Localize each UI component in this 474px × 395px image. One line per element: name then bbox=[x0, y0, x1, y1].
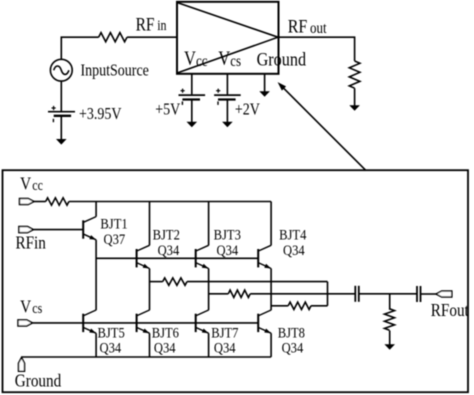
wire collector drop col4 bbox=[270, 202, 272, 246]
wire collector drop col3 bbox=[208, 202, 210, 246]
transistor BJT3 bbox=[196, 245, 209, 268]
svg-text:InputSource: InputSource bbox=[81, 61, 150, 79]
wire RFin to BJT1 base bbox=[33, 229, 83, 231]
ground +5V bbox=[187, 122, 198, 128]
wire BJT3 emitter down bbox=[208, 269, 210, 311]
wire battery to ground bbox=[60, 116, 62, 140]
wire port to resistor bbox=[34, 201, 46, 203]
wire line C to bus bbox=[311, 305, 328, 307]
wire base bus top row bbox=[96, 257, 258, 259]
svg-text:BJT2: BJT2 bbox=[153, 228, 180, 244]
ground +2V bbox=[222, 122, 233, 128]
svg-text:RF: RF bbox=[288, 15, 308, 37]
port Vcc bbox=[20, 198, 35, 204]
wire shunt resistor to ground bbox=[389, 331, 391, 345]
wire +2V cap to ground bbox=[226, 100, 228, 123]
svg-text:BJT8: BJT8 bbox=[278, 325, 305, 341]
wire line C bbox=[271, 305, 288, 307]
label Vcc amp pin bbox=[184, 47, 208, 70]
resistor line A bbox=[163, 278, 187, 285]
wire amp RFout bbox=[279, 37, 355, 61]
svg-text:cs: cs bbox=[230, 53, 241, 70]
svg-text:Q34: Q34 bbox=[158, 243, 180, 259]
label RFout top bbox=[288, 15, 327, 37]
svg-text:Q34: Q34 bbox=[154, 341, 176, 357]
wire BJT5 emitter to ground bus bbox=[95, 333, 97, 357]
resistor Vcc bias bbox=[46, 198, 69, 205]
voltage source InputSource bbox=[50, 59, 72, 81]
svg-text:V: V bbox=[184, 47, 196, 69]
svg-text:BJT4: BJT4 bbox=[279, 228, 306, 244]
wire BJT1 emitter down bbox=[95, 240, 97, 310]
svg-text:RF: RF bbox=[136, 14, 155, 35]
resistor load RFout bbox=[349, 61, 360, 88]
svg-text:BJT1: BJT1 bbox=[100, 217, 127, 233]
svg-text:+2V: +2V bbox=[235, 100, 260, 118]
wire line B to cap bbox=[250, 293, 355, 295]
transistor BJT7 bbox=[196, 310, 209, 333]
annotation arrow to ground pin bbox=[278, 82, 366, 171]
svg-text:BJT5: BJT5 bbox=[98, 325, 125, 341]
label Vcs amp pin bbox=[218, 47, 241, 70]
svg-text:BJT6: BJT6 bbox=[152, 325, 179, 341]
transistor BJT5 bbox=[83, 310, 96, 333]
wire BJT2 emitter down bbox=[149, 269, 151, 311]
svg-text:BJT7: BJT7 bbox=[211, 325, 238, 341]
svg-text:cc: cc bbox=[196, 53, 208, 70]
ground amp pin bbox=[259, 91, 270, 97]
capacitor +5V bbox=[179, 89, 206, 105]
transistor BJT1 bbox=[83, 217, 96, 240]
svg-text:Q34: Q34 bbox=[214, 341, 236, 357]
wire cap1 to cap2 bbox=[359, 293, 417, 295]
transistor BJT8 bbox=[258, 310, 271, 333]
wire shunt drop bbox=[389, 294, 391, 310]
resistor shunt output bbox=[385, 309, 395, 330]
ground load bbox=[349, 105, 360, 111]
label Vcs bbox=[20, 296, 42, 317]
wire ground bus bbox=[22, 356, 272, 358]
wire combine bus vertical bbox=[327, 282, 329, 306]
svg-text:+3.95V: +3.95V bbox=[79, 105, 121, 123]
svg-text:BJT3: BJT3 bbox=[214, 228, 241, 244]
battery +3.95V bbox=[48, 81, 75, 122]
wire line A bbox=[150, 281, 163, 283]
resistor line B bbox=[228, 290, 250, 297]
pin Vcc stub bbox=[191, 74, 193, 95]
svg-text:cs: cs bbox=[32, 300, 42, 316]
port RFin bbox=[19, 227, 34, 233]
svg-text:V: V bbox=[218, 47, 230, 69]
svg-text:V: V bbox=[20, 296, 31, 317]
wire line A to bus bbox=[187, 281, 328, 283]
pin Ground stub bbox=[264, 74, 266, 92]
svg-text:RFin: RFin bbox=[16, 232, 47, 253]
svg-text:cc: cc bbox=[32, 177, 43, 193]
svg-text:+5V: +5V bbox=[155, 100, 180, 118]
wire line B bbox=[209, 293, 229, 295]
svg-text:Q34: Q34 bbox=[100, 341, 122, 357]
wire collector drop col2 bbox=[149, 202, 151, 246]
transistor BJT2 bbox=[137, 245, 150, 268]
wire source top to RFin resistor bbox=[61, 37, 98, 59]
ground source bbox=[56, 139, 67, 145]
wire Vcs bus bbox=[33, 322, 259, 324]
svg-text:Q37: Q37 bbox=[104, 232, 126, 248]
resistor source series bbox=[99, 33, 127, 42]
svg-text:V: V bbox=[20, 173, 31, 194]
wire BJT6 emitter to ground bus bbox=[149, 333, 151, 357]
label RFin top bbox=[136, 14, 167, 35]
port Vcs bbox=[18, 320, 33, 326]
svg-text:Ground: Ground bbox=[15, 370, 62, 391]
wire Vcc bus bbox=[69, 201, 271, 203]
svg-text:Q34: Q34 bbox=[282, 341, 304, 357]
label Vcc bbox=[20, 173, 43, 194]
svg-text:Q34: Q34 bbox=[283, 243, 305, 259]
wire BJT7 emitter to ground bus bbox=[208, 333, 210, 357]
capacitor C1 output bbox=[355, 286, 359, 302]
svg-text:Q34: Q34 bbox=[217, 243, 239, 259]
svg-text:out: out bbox=[310, 20, 327, 37]
capacitor C2 output bbox=[417, 286, 421, 302]
wire BJT4 emitter down bbox=[270, 269, 272, 311]
wire cap2 to port bbox=[421, 293, 437, 295]
transistor BJT6 bbox=[137, 310, 150, 333]
capacitor +2V bbox=[214, 89, 241, 105]
wire resistor to amp bbox=[127, 36, 177, 38]
pin Vcs stub bbox=[226, 74, 228, 95]
wire BJT8 emitter to ground bus bbox=[270, 333, 272, 357]
amplifier triangle bbox=[178, 3, 278, 73]
wire +5V cap to ground bbox=[191, 100, 193, 123]
resistor line C bbox=[288, 302, 311, 309]
amplifier box U1 bbox=[177, 2, 279, 74]
wire collector drop col1 bbox=[95, 202, 97, 217]
svg-text:RFout: RFout bbox=[431, 300, 469, 321]
port Ground bbox=[19, 358, 25, 372]
svg-text:in: in bbox=[157, 17, 167, 33]
schematic enclosure box bbox=[3, 170, 469, 392]
wire load resistor to ground bbox=[354, 88, 356, 105]
port RFout bbox=[436, 291, 452, 297]
transistor BJT4 bbox=[258, 245, 271, 268]
ground shunt bbox=[384, 344, 395, 350]
svg-text:Ground: Ground bbox=[257, 48, 306, 70]
